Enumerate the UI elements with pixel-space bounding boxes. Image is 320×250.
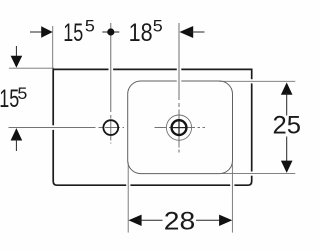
top dot at faucet centerline [102, 31, 119, 33]
extension line vertical left (x=52.7) [52, 26, 54, 69]
centerline vertical faucet [110, 23, 112, 144]
faucet hole [103, 120, 118, 135]
extension line right top (y=81.3) [219, 80, 295, 82]
inner bowl [128, 81, 233, 174]
centerline vertical drain [178, 23, 180, 153]
svg-text:15: 15 [0, 85, 19, 113]
drain inner [172, 120, 187, 135]
bottom dimension 28: arrow left [128, 215, 141, 226]
drain outer [166, 115, 191, 140]
extension line bottom left (x=128.2) [127, 162, 129, 233]
svg-text:5: 5 [17, 85, 27, 103]
svg-text:15: 15 [63, 19, 83, 47]
left dimension 15.5: arrow down [15, 46, 17, 58]
svg-text:18: 18 [129, 19, 153, 47]
svg-text:25: 25 [273, 112, 301, 140]
washbasin outer outline [53, 69, 252, 185]
svg-text:5: 5 [153, 18, 163, 36]
top dimension 18.5: arrow left + tail [179, 26, 193, 38]
right dimension 25: arrow up [281, 83, 293, 95]
bottom dimension 28: arrow right [196, 219, 222, 221]
left dimension 15.5: arrow up [11, 128, 23, 140]
outline gaps at centerline crossings [109, 68, 114, 71]
centerline horizontal faucet [9, 127, 125, 129]
extension line right bottom (y=173.6) [219, 173, 295, 175]
drain cross [172, 127, 185, 129]
right dimension 25: arrow down [286, 137, 288, 163]
extension line horizontal top-left (y=68.2) [9, 67, 54, 69]
svg-text:28: 28 [164, 208, 196, 236]
svg-text:5: 5 [85, 18, 95, 36]
top dimension 15.5: tail + arrow right [30, 31, 43, 33]
centerline horizontal drain [155, 127, 206, 129]
extension line bottom right (x=232.4) [231, 162, 233, 233]
